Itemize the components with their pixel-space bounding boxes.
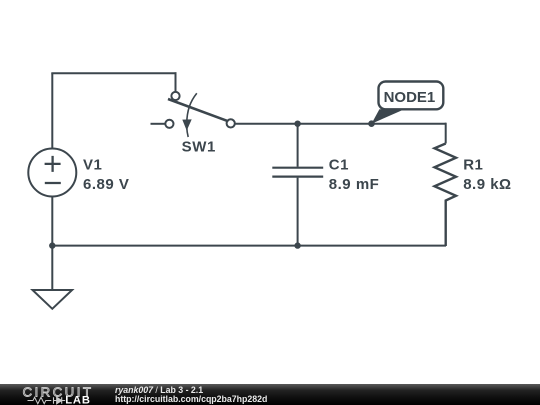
node NODE1 junction dot (368, 120, 375, 127)
attribution text (115, 386, 267, 404)
svg-text:R1: R1 (463, 157, 483, 174)
wire top-left vertical (51, 73, 53, 149)
wire ground stem (51, 246, 53, 290)
svg-text:V1: V1 (83, 157, 102, 174)
node A junction dot (49, 242, 55, 248)
footer bar (0, 384, 540, 405)
svg-text:8.9 kΩ: 8.9 kΩ (463, 176, 511, 193)
node junction dot cap bottom (294, 242, 300, 248)
resistor R1 (435, 144, 457, 247)
wire right vertical top (445, 123, 447, 144)
label C1 value (329, 157, 380, 193)
svg-text:6.89 V: 6.89 V (83, 176, 129, 193)
wire top horizontal (51, 72, 176, 74)
svg-text:C1: C1 (329, 157, 349, 174)
wire V1 bottom (51, 197, 53, 247)
label R1 value (463, 157, 511, 193)
capacitor C1 (272, 123, 323, 246)
wire bottom horizontal (52, 245, 446, 247)
node NODE1 callout box (379, 82, 444, 110)
node NODE1 callout pointer (372, 109, 405, 123)
switch SW1 (151, 92, 235, 137)
svg-text:NODE1: NODE1 (384, 89, 436, 106)
voltage source V1 (28, 149, 76, 197)
svg-text:8.9 mF: 8.9 mF (329, 176, 380, 193)
label V1 value (83, 157, 129, 193)
svg-text:SW1: SW1 (182, 138, 216, 155)
CircuitLab logo (0, 384, 110, 405)
node junction dot cap top (294, 121, 300, 127)
svg-text:LAB: LAB (65, 395, 91, 405)
ground (33, 290, 73, 309)
wire switch to right (235, 123, 446, 125)
wire switch top lead (175, 72, 177, 92)
